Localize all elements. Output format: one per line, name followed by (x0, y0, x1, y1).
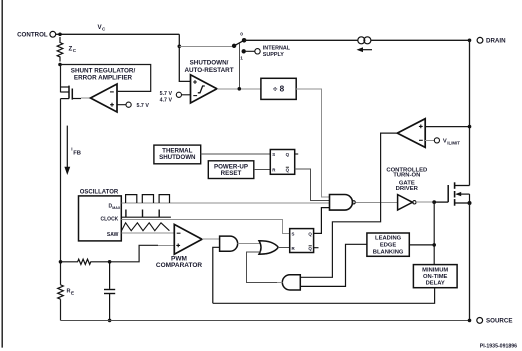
label PWM comparator (156, 255, 203, 269)
divider block /8 (261, 78, 296, 99)
wire to PWM plus input (110, 245, 175, 261)
terminal VILIMIT (434, 138, 460, 146)
svg-text:SUPPLY: SUPPLY (263, 52, 284, 58)
block thermal shutdown (154, 145, 201, 164)
node comparator output to switch (238, 87, 242, 91)
wire RE bottom to rail (60, 299, 62, 320)
label shunt regulator / error amplifier (71, 68, 136, 82)
wire shutdown minus input (182, 94, 191, 96)
wire A1 lower input from min delay line (213, 247, 220, 303)
block minimum on-time delay (413, 265, 457, 288)
svg-text:4.7 V: 4.7 V (160, 98, 173, 104)
label oscillator (80, 190, 119, 196)
svg-text:SHUNT REGULATOR/: SHUNT REGULATOR/ (71, 68, 136, 75)
node VC junction at ZC top (58, 33, 62, 37)
wire ilimit plus input to drain (425, 126, 469, 128)
resistor R feedback horizontal (61, 259, 110, 264)
waveform DMAX pulses (126, 195, 170, 203)
svg-text:Q: Q (308, 246, 312, 251)
wire gate lead (434, 201, 448, 203)
terminal CONTROL (17, 31, 56, 38)
wire NAND output to driver (gray) (355, 201, 397, 203)
wire CLOCK to latch2 S (gray) (121, 219, 289, 233)
svg-text:SHUTDOWN/: SHUTDOWN/ (190, 60, 229, 67)
svg-text:MINIMUM: MINIMUM (422, 268, 448, 274)
wire left vertical to RE (60, 99, 62, 285)
svg-text:DELAY: DELAY (426, 281, 445, 287)
label IFB (71, 147, 81, 157)
node ZC bottom junction (58, 63, 62, 67)
wire A1 output to OR (gray) (238, 243, 261, 245)
op-amp U4 PWM comparator (174, 224, 202, 254)
op-amp U2 shutdown auto-restart comparator (191, 75, 217, 103)
svg-text:S: S (292, 232, 295, 237)
wire OR output to latch2 R (278, 247, 290, 249)
block power-up reset (208, 161, 254, 179)
svg-text:R: R (67, 289, 71, 295)
node MOSFET source junction (468, 201, 472, 205)
wire bottom source rail (61, 319, 470, 321)
terminal 5.7V error amp reference (126, 102, 149, 109)
terminal DRAIN (477, 37, 506, 44)
label shutdown/auto-restart (184, 60, 233, 75)
svg-text:DRIVER: DRIVER (396, 186, 419, 192)
transistor Q1 shunt pass (61, 86, 82, 100)
wire driver output to gate (gray) (416, 201, 434, 203)
waveform CLOCK baseline and ticks (121, 210, 171, 218)
op-amp U6 current limit comparator (397, 119, 425, 148)
wire source vertical (469, 203, 471, 320)
node feedback divider junction (59, 260, 63, 264)
wire SAW to PWM minus (gray) (121, 232, 174, 234)
svg-text:5.7 V: 5.7 V (137, 103, 150, 109)
wire LEB right to gate node (409, 244, 434, 246)
svg-text:PI-1935-091896: PI-1935-091896 (480, 343, 517, 349)
wire control main left vertical (60, 65, 62, 93)
wire ilimit output to logic (300, 133, 397, 277)
node capacitor top junction (108, 260, 112, 264)
wire DMAX line to NAND (gray) (121, 202, 329, 204)
svg-text:S: S (272, 152, 275, 157)
wire switch control from comparator output (238, 44, 240, 89)
svg-text:BLANKING: BLANKING (373, 249, 404, 255)
node gate drive junction (432, 200, 436, 204)
wire power-up reset to latch1 R (gray) (254, 169, 270, 171)
inverter driver gate (398, 195, 416, 210)
node source rail junction (468, 319, 472, 323)
wire switch throw1 to internal supply (246, 50, 255, 52)
and-gate A2 mirrored (282, 275, 300, 290)
svg-text:1: 1 (240, 56, 243, 62)
current source CS1 (357, 37, 373, 52)
svg-text:0: 0 (240, 31, 243, 37)
resistor ZC (57, 37, 77, 62)
svg-text:EDGE: EDGE (380, 243, 397, 249)
svg-text:ILIMIT: ILIMIT (447, 141, 460, 146)
latch U5 SR flip-flop lower (290, 229, 314, 253)
svg-text:OSCILLATOR: OSCILLATOR (80, 190, 119, 196)
transistor Q2 power MOSFET (448, 182, 469, 205)
node capacitor bottom on rail (108, 319, 112, 323)
terminal 5.7V/4.7V threshold (160, 91, 182, 104)
wire error amp output (gray) (81, 97, 91, 99)
wire OR lower input from A2 output (247, 252, 277, 283)
svg-text:Q: Q (308, 232, 312, 237)
resistor RE (58, 285, 74, 299)
svg-text:DRAIN: DRAIN (486, 38, 506, 45)
node ilimit drain sense junction (468, 125, 472, 129)
node drain junction (468, 39, 472, 43)
svg-text:ON-TIME: ON-TIME (423, 274, 448, 280)
svg-text:RESET: RESET (221, 170, 242, 177)
wire drain vertical (469, 40, 471, 185)
wire shutdown comparator output to divider (gray) (217, 88, 261, 90)
wire VC rail (56, 33, 180, 35)
wire latch2 Qbar stub (314, 247, 319, 249)
wire latch1 Q stub (295, 153, 299, 155)
svg-text:Q: Q (286, 152, 290, 157)
wire shunt regulator top (60, 65, 151, 92)
wire min delay bottom to A1 input (213, 288, 435, 304)
wire thermal shutdown to latch1 S (gray) (201, 153, 271, 155)
svg-text:INTERNAL: INTERNAL (263, 45, 291, 51)
border frame left edge (1, 0, 3, 348)
wire latch1 Qbar to NAND (295, 169, 330, 200)
op-amp U1 shunt regulator error amplifier (91, 84, 118, 112)
wire LEB left to A2 input (300, 244, 367, 286)
wire latch2 Q to NAND lower input (314, 208, 330, 234)
wire top rail right of current source (371, 39, 470, 41)
svg-text:5.7 V: 5.7 V (160, 91, 173, 97)
svg-text:AUTO-RESTART: AUTO-RESTART (184, 67, 233, 74)
svg-text:COMPARATOR: COMPARATOR (156, 262, 203, 269)
svg-text:FB: FB (73, 151, 81, 157)
wire top supply rail (244, 39, 358, 41)
node switch branch junction (178, 45, 182, 49)
nand-gate N1 (330, 195, 356, 211)
wire error amp plus input (117, 104, 126, 106)
svg-text:SAW: SAW (107, 232, 119, 238)
wire ilimit minus stub (425, 139, 435, 141)
wire IFB arrow (64, 126, 70, 175)
svg-text:TURN-ON: TURN-ON (393, 172, 420, 178)
svg-text:ERROR AMPLIFIER: ERROR AMPLIFIER (74, 75, 133, 82)
svg-text:E: E (71, 290, 74, 295)
svg-text:SOURCE: SOURCE (486, 318, 512, 325)
terminal INTERNAL SUPPLY (255, 45, 291, 58)
wire divider output to NAND (gray) (296, 89, 329, 197)
wire PWM output (gray) (202, 238, 220, 240)
label PI-1935-091896 (480, 343, 517, 349)
wire to switch wiper (gray) (179, 45, 234, 47)
wire VC down to shutdown comparator (179, 34, 190, 81)
waveform SAW sawtooth (122, 223, 170, 231)
svg-text:SHUTDOWN: SHUTDOWN (159, 154, 196, 161)
svg-text:CONTROL: CONTROL (17, 31, 48, 38)
block oscillator (79, 196, 122, 241)
capacitor C1 (104, 263, 115, 320)
block leading edge blanking (367, 233, 409, 256)
wire gate drive to LEB and min delay (433, 202, 435, 265)
node LEB junction (432, 243, 436, 247)
latch U3 SR flip-flop upper (270, 150, 294, 175)
svg-text:÷ 8: ÷ 8 (273, 85, 285, 94)
svg-text:Q: Q (286, 167, 290, 172)
switch SW1 blade (232, 31, 247, 61)
label controlled turn-on gate driver (386, 167, 427, 192)
svg-text:MAX: MAX (112, 206, 121, 210)
label VC (98, 24, 107, 32)
svg-text:V: V (443, 139, 447, 145)
svg-text:CLOCK: CLOCK (101, 216, 119, 222)
terminal SOURCE (477, 318, 513, 325)
wire A2 output stub (gray) (277, 281, 282, 283)
svg-text:LEADING: LEADING (375, 236, 402, 242)
and-gate A1 (220, 236, 238, 251)
or-gate O1 (259, 241, 278, 255)
